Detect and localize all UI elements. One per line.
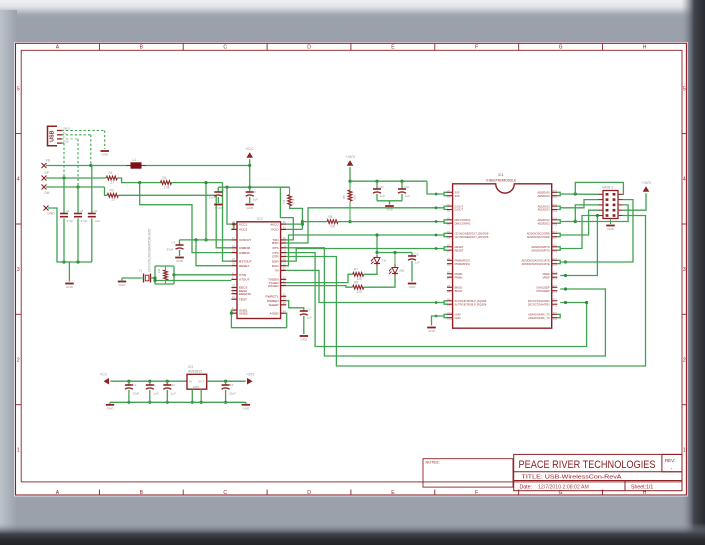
svg-text:4: 4 [683,177,686,183]
svg-text:IC2: IC2 [257,217,263,221]
svg-text:10k: 10k [353,195,357,200]
svg-text:1uF: 1uF [405,194,410,198]
svg-text:2: 2 [683,357,686,363]
svg-text:AD5/DIO5/ASSOCIATE: AD5/DIO5/ASSOCIATE [522,262,550,266]
svg-text:GND: GND [119,283,127,287]
svg-text:P11: P11 [553,312,558,315]
svg-text:22uF: 22uF [229,392,236,396]
svg-text:R3: R3 [110,189,114,193]
svg-text:P16: P16 [553,251,558,254]
svg-text:VCC1: VCC1 [239,222,248,226]
svg-text:GND: GND [193,385,199,389]
svg-text:5: 5 [683,86,686,92]
svg-text:R6: R6 [329,215,333,219]
svg-text:C11: C11 [379,185,385,189]
svg-text:AVCC: AVCC [270,222,279,226]
svg-text:3: 3 [683,267,686,273]
svg-text:P18: P18 [553,224,558,227]
svg-text:DTR: DTR [272,255,279,259]
svg-text:4.7k: 4.7k [292,198,296,204]
svg-text:3: 3 [17,267,20,273]
svg-text:+3V3: +3V3 [246,373,254,377]
svg-text:AGND: AGND [270,311,280,315]
svg-text:P14: P14 [553,272,558,275]
svg-text:AME8815: AME8815 [188,369,202,373]
svg-text:Sheet:1/1: Sheet:1/1 [631,484,653,490]
svg-text:C3: C3 [252,190,256,194]
svg-text:RESET: RESET [239,264,249,268]
svg-text:Date:: Date: [520,484,532,490]
svg-text:3V3: 3V3 [455,194,460,198]
svg-text:GND: GND [107,406,115,410]
svg-text:VREF: VREF [543,275,551,279]
svg-text:P20: P20 [553,190,558,193]
svg-text:P10: P10 [447,312,452,315]
svg-text:AD1/DIO1: AD1/DIO1 [537,208,550,212]
svg-text:PWM0/RSSI: PWM0/RSSI [455,262,470,266]
svg-text:USBDM: USBDM [239,246,251,250]
svg-text:R4: R4 [282,199,286,203]
svg-text:AD5/DIO0: AD5/DIO0 [537,194,550,198]
svg-text:GND: GND [101,153,109,157]
svg-text:D: D [307,490,311,496]
svg-text:REV:: REV: [665,458,675,463]
svg-text:C10: C10 [404,185,410,189]
svg-text:ON/SLEEP: ON/SLEEP [536,289,550,293]
svg-text:5: 5 [17,86,20,92]
svg-text:GND: GND [300,338,308,342]
svg-text:C9: C9 [307,308,311,312]
svg-text:C14: C14 [131,383,137,387]
svg-text:GND: GND [242,406,250,410]
svg-text:RSTOUT: RSTOUT [239,259,252,263]
svg-text:VB: VB [46,159,50,163]
svg-text:EEDATA: EEDATA [239,292,252,296]
svg-text:3V3OUT: 3V3OUT [239,238,251,242]
svg-text:P16: P16 [553,245,558,248]
svg-text:1M: 1M [157,268,161,273]
svg-text:R8: R8 [354,280,358,284]
svg-text:27: 27 [111,181,115,185]
svg-text:RTS: RTS [272,246,278,250]
svg-text:1uF: 1uF [415,261,420,265]
svg-text:47pF: 47pF [67,219,74,223]
svg-text:RX: RX [400,269,405,273]
svg-text:R5: R5 [342,195,346,199]
svg-text:GND: GND [215,206,223,210]
svg-text:C13: C13 [228,383,234,387]
svg-text:C: C [223,45,227,51]
svg-text:DP: DP [45,171,49,175]
svg-text:IN.TRGIDTR/SLP_RQ/DI8: IN.TRGIDTR/SLP_RQ/DI8 [455,302,487,306]
svg-text:TX: TX [382,259,387,263]
svg-text:C12: C12 [169,383,175,387]
svg-text:P12: P12 [553,299,558,302]
svg-text:C1: C1 [152,383,156,387]
svg-text:1uF: 1uF [307,316,312,320]
svg-text:1uF: 1uF [171,392,176,396]
svg-text:GND: GND [176,259,184,263]
svg-text:DIN/CONFIG: DIN/CONFIG [455,221,471,225]
svg-text:GND: GND [455,316,461,320]
svg-text:C7: C7 [172,241,176,245]
svg-text:1: 1 [17,448,20,454]
svg-text:TITLE: USB-WirelessCon-RevA: TITLE: USB-WirelessCon-RevA [522,475,622,481]
svg-text:P12: P12 [553,305,558,308]
svg-text:P14: P14 [553,278,558,281]
svg-text:AD6/DIO6/RTS: AD6/DIO6/RTS [531,248,550,252]
svg-text:1uF: 1uF [153,392,158,396]
svg-text:GND: GND [48,212,56,216]
svg-text:D: D [307,45,311,51]
svg-text:VCC: VCC [100,373,108,377]
svg-text:P15: P15 [553,264,558,267]
svg-text:GND: GND [428,329,436,333]
svg-text:C5: C5 [80,209,84,213]
svg-text:IC1: IC1 [499,173,504,177]
svg-text:GND: GND [246,206,254,210]
svg-text:P10: P10 [447,318,452,321]
svg-text:DM: DM [45,191,50,195]
svg-text:P11: P11 [553,318,558,321]
svg-text:12/7/2010 2:08:02 AM: 12/7/2010 2:08:02 AM [538,484,589,490]
svg-text:DCD: DCD [272,264,279,268]
svg-text:CD.IN/ONE/DOUT_EN/DO8: CD.IN/ONE/DOUT_EN/DO8 [455,235,489,239]
svg-text:P19: P19 [553,204,558,207]
svg-text:CRYSTAL/RESONATOR-SMD: CRYSTAL/RESONATOR-SMD [148,228,152,272]
svg-text:PWM1: PWM1 [455,275,464,279]
svg-text:.1uF: .1uF [252,198,258,202]
svg-text:NOTES:: NOTES: [426,461,440,465]
svg-text:X-BEEPROMODULE: X-BEEPROMODULE [486,179,516,183]
svg-text:RXD: RXD [272,241,279,245]
svg-text:2: 2 [17,357,20,363]
svg-text:47pF: 47pF [81,219,88,223]
svg-text:L1: L1 [133,158,137,162]
svg-text:VCC2: VCC2 [239,228,248,232]
svg-text:P17: P17 [553,237,558,240]
svg-text:P18: P18 [553,218,558,221]
svg-text:DIO7/CTS/ANTR1: DIO7/CTS/ANTR1 [528,302,550,306]
svg-text:GND: GND [607,227,615,231]
svg-text:XTIN: XTIN [239,273,246,277]
svg-text:GND: GND [409,285,417,289]
svg-text:33uF: 33uF [132,392,139,396]
svg-text:VCIO: VCIO [271,228,279,232]
svg-text:RESET: RESET [455,248,464,252]
svg-text:P15: P15 [553,258,558,261]
svg-text:DSR: DSR [272,259,279,263]
svg-text:27: 27 [112,198,116,202]
svg-text:XTOUT: XTOUT [239,278,250,282]
svg-text:IN: IN [189,379,192,383]
svg-text:RXLED: RXLED [268,284,279,288]
svg-text:1: 1 [683,448,686,454]
svg-text:OUT: OUT [198,379,204,383]
svg-text:USBDP: USBDP [239,251,250,255]
svg-text:SLEEP: SLEEP [269,303,279,307]
svg-text:P19: P19 [553,210,558,213]
svg-text:BKGD: BKGD [455,289,463,293]
svg-text:AD4/DIO4/RF_TX: AD4/DIO4/RF_TX [528,316,550,320]
svg-text:220: 220 [357,290,363,294]
svg-text:R2: R2 [163,176,167,180]
svg-text:MA05-2: MA05-2 [602,186,613,190]
svg-text:10nF: 10nF [209,196,216,200]
svg-text:+3V3: +3V3 [641,180,651,185]
svg-text:C: C [223,490,227,496]
svg-text:33nF: 33nF [167,248,174,252]
svg-text:C4: C4 [66,209,70,213]
svg-text:R1: R1 [109,171,113,175]
svg-text:D.OUT: D.OUT [455,208,464,212]
svg-text:Y1: Y1 [139,269,143,273]
svg-text:P13: P13 [553,285,558,288]
svg-text:100: 100 [330,224,336,228]
svg-text:PEACE RIVER TECHNOLOGIES: PEACE RIVER TECHNOLOGIES [519,459,656,471]
svg-text:AD3/DIO3/COORD: AD3/DIO3/COORD [527,235,550,239]
svg-text:GND2: GND2 [239,311,248,315]
svg-text:.1uF: .1uF [94,219,100,223]
svg-text:C8: C8 [415,253,419,257]
svg-text:VCC: VCC [245,146,254,151]
svg-text:H: H [643,45,647,51]
svg-text:G: G [559,45,563,51]
svg-text:P17: P17 [553,231,558,234]
svg-text:R7: R7 [354,268,358,272]
svg-text:C6: C6 [93,209,97,213]
svg-text:USB: USB [50,130,56,141]
svg-text:4: 4 [17,177,20,183]
svg-text:1uF: 1uF [380,194,385,198]
svg-text:AD2/DIO2: AD2/DIO2 [537,221,550,225]
svg-text:P20: P20 [553,196,558,199]
svg-text:+3V3: +3V3 [345,154,355,159]
svg-text:RI: RI [276,269,279,273]
svg-text:F: F [475,45,478,51]
svg-text:P13: P13 [553,291,558,294]
svg-text:1.5k: 1.5k [164,185,170,189]
svg-text:TEST: TEST [239,297,247,301]
svg-text:GND: GND [66,285,74,289]
svg-text:F: F [475,490,478,496]
svg-text:C2: C2 [221,188,225,192]
